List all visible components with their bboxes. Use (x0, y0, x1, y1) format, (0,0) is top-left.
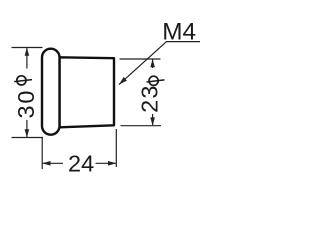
svg-text:30: 30 (13, 91, 39, 119)
svg-text:24: 24 (68, 150, 94, 176)
svg-text:23: 23 (137, 86, 163, 113)
svg-text:M4: M4 (162, 19, 196, 46)
